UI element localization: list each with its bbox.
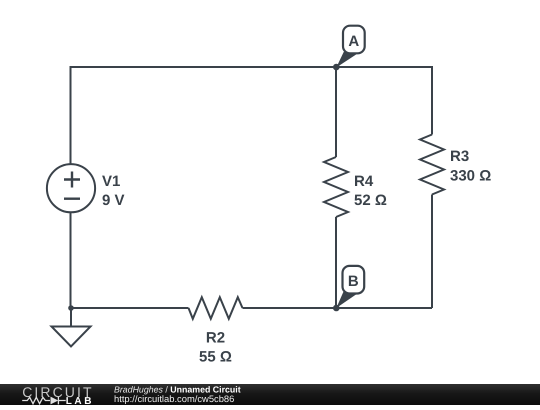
wire top horizontal	[71, 66, 433, 68]
resistor R4 zigzag	[324, 157, 348, 217]
wire middle vertical upper	[335, 67, 337, 157]
wire left vertical upper	[70, 66, 72, 164]
svg-text:A: A	[348, 33, 359, 50]
svg-text:R2: R2	[206, 330, 225, 347]
svg-text:52 Ω: 52 Ω	[354, 192, 387, 209]
svg-text:R4: R4	[354, 173, 374, 190]
svg-text:9 V: 9 V	[102, 192, 125, 209]
wire left vertical lower	[70, 212, 72, 308]
wire bottom right segment	[243, 307, 433, 309]
svg-text:V1: V1	[102, 173, 120, 190]
svg-text:55 Ω: 55 Ω	[199, 349, 232, 366]
svg-text:R3: R3	[450, 148, 469, 165]
node A box	[343, 26, 365, 54]
resistor R2 zigzag	[189, 297, 243, 319]
wire bottom left segment	[71, 307, 189, 309]
V1 minus sign	[64, 197, 80, 199]
wire middle vertical lower	[335, 217, 337, 308]
V1 plus sign	[64, 172, 80, 188]
footer bar	[0, 384, 540, 405]
svg-text:LAB: LAB	[66, 396, 94, 405]
logo resistor zigzag	[22, 397, 50, 403]
voltage source V1 circle	[47, 164, 95, 212]
node A dot	[333, 64, 340, 71]
node B dot	[333, 305, 340, 312]
logo diode	[51, 397, 59, 405]
wire right vertical upper	[431, 66, 433, 135]
ground stub	[70, 308, 72, 327]
svg-text:http://circuitlab.com/cw5cb86: http://circuitlab.com/cw5cb86	[114, 393, 234, 404]
junction dot ground	[68, 305, 74, 311]
node A tail	[336, 52, 356, 68]
node B tail	[336, 292, 356, 308]
svg-text:330 Ω: 330 Ω	[450, 168, 491, 185]
svg-text:B: B	[348, 273, 359, 290]
resistor R3 zigzag	[420, 135, 444, 195]
wire right vertical lower	[431, 195, 433, 309]
node B box	[343, 266, 365, 294]
ground triangle	[52, 327, 91, 347]
